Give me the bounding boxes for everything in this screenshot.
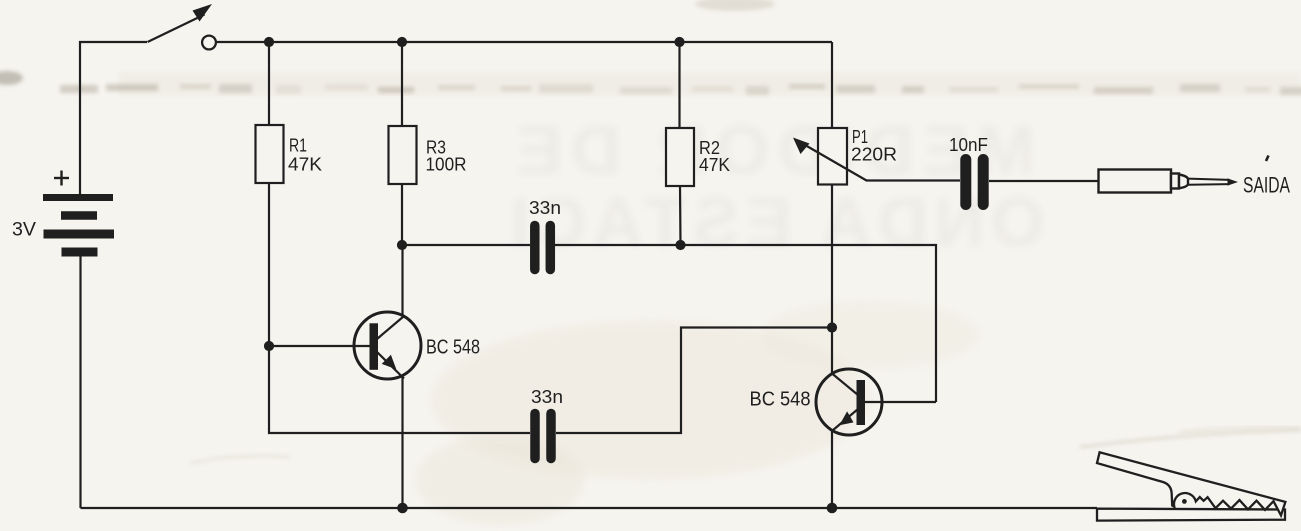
label R3 100R [426,138,467,175]
svg-text:10nF: 10nF [949,135,988,155]
alligator clip [1097,452,1285,520]
wire C1 right to Q2 base [555,245,936,402]
svg-text:3V: 3V [12,220,36,241]
node ground Q2 [827,503,838,514]
transistor Q1 BC548 [354,312,421,379]
wire P1 bottom lead to Q2 collector [831,185,833,374]
wire P1 top lead [831,42,833,128]
wire Q1 base [269,345,370,347]
label R1 47K [288,136,322,175]
wire R3 node to Q1 collector [401,245,403,317]
transistor Q2 BC548 [816,369,882,435]
wire C2 right to P1 node [556,328,832,434]
potentiometer P1 wiper arrow [793,138,867,181]
wire base node to C2 [269,346,530,433]
node R3 C1 [397,240,407,250]
battery plus sign [54,171,69,186]
capacitor C1 33n [535,226,551,270]
svg-text:BC 548: BC 548 [750,389,811,411]
wire battery negative to ground rail [79,257,81,509]
resistor R1 [256,125,284,183]
svg-text:100R: 100R [426,155,467,175]
svg-text:47K: 47K [288,155,322,175]
node Q1 base [264,341,274,351]
wire Q2 emitter to ground rail [831,430,833,508]
svg-text:47K: 47K [699,155,730,175]
wire R2 top lead [678,42,680,128]
wire Q1 emitter to ground rail [401,377,403,508]
resistor R2 [666,128,694,186]
wire R3 top lead [401,42,403,126]
node top rail R3 [397,37,407,47]
wire R2 bottom lead [679,186,682,245]
wire C1 left [402,244,530,246]
wire Q2 base lead [865,401,936,403]
node top rail R1 [264,37,274,47]
svg-text:220R: 220R [851,145,897,165]
wire ground rail [81,507,1098,509]
accent on I of SAIDA [1266,156,1269,162]
node ground Q1 [397,503,408,514]
wire battery positive to switch [80,42,147,196]
node C1 R2 [675,240,685,250]
svg-text:33n: 33n [529,198,561,218]
node top rail R2 [674,37,684,47]
wire R1 bottom lead [268,183,270,346]
label P1 220R [851,127,897,165]
wire top rail [215,41,832,43]
wire C3 to probe [989,180,1099,182]
wire C2 left is above; capacitor C2 33n [535,414,551,459]
potentiometer P1 body [818,128,847,185]
label R2 47K [699,138,730,175]
wire wiper to C3 [866,179,960,181]
wire R1 top lead [268,42,270,125]
svg-text:BC 548: BC 548 [426,337,480,359]
node P1 feedback [827,322,837,332]
battery B1 3V [43,198,114,253]
svg-text:R1: R1 [289,136,307,156]
svg-text:33n: 33n [531,387,563,407]
wire R3 bottom lead [401,184,403,245]
resistor R3 [389,126,417,184]
probe tip body [1099,170,1239,193]
capacitor C3 10nF [966,160,983,205]
svg-text:SAIDA: SAIDA [1243,173,1290,198]
switch S1 [148,4,216,49]
